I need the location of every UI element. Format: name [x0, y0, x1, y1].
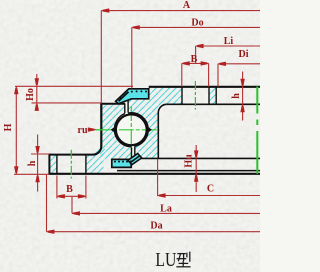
svg-text:H: H	[3, 123, 14, 131]
seal upper	[116, 89, 149, 104]
wire mounting hole left wall	[56, 155, 58, 174]
node raceway right vertex	[146, 126, 152, 134]
arrow Hu up	[194, 175, 198, 182]
svg-text:Do: Do	[191, 18, 203, 29]
node green centerline over ring edge	[96, 129, 105, 131]
wire bottom plane thick	[49, 173, 260, 175]
dim B top line	[182, 62, 209, 64]
arrow C left	[159, 193, 166, 197]
wire bolt hole left wall inner ring	[181, 87, 183, 105]
dim La extension	[71, 197, 73, 213]
node raceway right arc	[128, 113, 148, 147]
hatch flange right part	[86, 155, 104, 174]
wire flange top	[49, 154, 93, 156]
dim B top right extension	[208, 63, 210, 86]
dim h left line	[37, 135, 39, 192]
arrow B bottom left	[58, 194, 65, 198]
dim Do line	[132, 26, 260, 28]
arrow B top left	[183, 61, 190, 65]
svg-text:C: C	[207, 184, 214, 195]
arrow H up	[14, 88, 18, 95]
wire flange left edge	[48, 154, 50, 175]
svg-text:Ho: Ho	[25, 88, 36, 101]
seal upper tail inner edge	[119, 92, 129, 101]
arrow H down	[14, 166, 18, 173]
dim H bottom extension	[14, 173, 49, 175]
arrow ru right	[88, 127, 95, 131]
dim A extension	[100, 11, 102, 104]
wire inner ring top surface	[149, 86, 260, 88]
dim B bottom right extension	[85, 176, 87, 199]
hatch inner ring	[128, 87, 257, 159]
ball	[116, 114, 147, 145]
svg-text:LU: LU	[155, 249, 176, 271]
arrow h left up	[35, 176, 39, 183]
wire outer ring left edge	[100, 103, 102, 147]
arrows	[14, 8, 245, 234]
wire pocket corner	[158, 104, 167, 158]
arrow B top right	[201, 61, 208, 65]
dim Li line	[196, 45, 260, 47]
wire bore wall	[215, 87, 217, 105]
wire outer ring fillet	[93, 146, 101, 154]
dim B bottom line	[57, 195, 86, 197]
arrow Di left	[219, 62, 226, 66]
dim C extension	[157, 159, 159, 196]
wire gap above ball left	[124, 104, 126, 114]
svg-text:ru: ru	[78, 125, 88, 136]
svg-text:La: La	[160, 204, 172, 215]
wire gap below ball left	[131, 148, 133, 159]
dim h left top extension	[31, 153, 49, 155]
hatch outer ring body	[101, 104, 149, 159]
white void above ball between rings	[125, 103, 132, 113]
svg-text:B: B	[191, 54, 198, 65]
dim Di extension	[217, 64, 219, 87]
ball interior white	[114, 112, 149, 147]
dim H top extension	[15, 85, 133, 87]
arrow Hu down	[194, 150, 198, 157]
svg-text:Da: Da	[150, 221, 162, 232]
hatch fillet wedge	[93, 145, 102, 155]
dim Ho line	[36, 74, 38, 111]
svg-text:B: B	[66, 184, 73, 195]
wire gap below ball right	[134, 146, 136, 158]
wire mounting hole right wall	[85, 155, 87, 174]
node raceway left vertex	[111, 126, 117, 134]
arrow h right up	[240, 106, 244, 113]
arrow Ho up	[35, 104, 39, 111]
svg-text:Li: Li	[224, 36, 234, 47]
seal lower tail inner edge	[131, 156, 140, 162]
arrow La left	[73, 211, 80, 215]
dim Da line	[47, 231, 261, 233]
dim C line	[158, 195, 260, 197]
arrow A left	[103, 8, 110, 12]
title 型 glyph drawn manually	[176, 252, 190, 267]
svg-text:h: h	[27, 160, 38, 166]
node flange bolt centerline (green)	[70, 150, 72, 179]
node inner bolt centerline (green)	[194, 81, 196, 110]
svg-text:Di: Di	[239, 49, 249, 60]
dim B top left extension	[181, 63, 183, 86]
dim A line	[101, 10, 260, 12]
dim La line	[72, 212, 260, 214]
dim B bottom left extension	[56, 176, 58, 199]
wire bolt hole right wall inner ring	[208, 87, 210, 105]
dim Hu line	[195, 145, 197, 192]
seal lower	[112, 159, 131, 167]
wire inner ring band bottom	[167, 103, 260, 105]
svg-text:h: h	[231, 93, 242, 99]
arrow Ho down	[35, 78, 39, 85]
svg-text:A: A	[183, 0, 191, 11]
wire lower inner line	[117, 170, 260, 172]
node ball centerline horizontal (green)	[96, 129, 160, 131]
dim Do extension	[131, 27, 133, 88]
svg-text:Hu: Hu	[184, 154, 195, 168]
arrow B bottom right	[78, 194, 85, 198]
dim Di line	[218, 63, 260, 65]
dim Ho bottom extension	[32, 102, 102, 104]
arrow h left down	[35, 146, 39, 153]
leader ru line	[89, 129, 96, 131]
node bore centerline (green dashed)	[256, 87, 258, 114]
wire gap above ball right	[127, 99, 129, 113]
wire outer ring top surface	[101, 103, 125, 105]
dim H line	[15, 86, 17, 174]
seal lower tail	[128, 154, 142, 165]
node raceway left arc	[114, 114, 131, 147]
dim Da extension	[46, 175, 48, 232]
arrow Li left	[197, 44, 204, 48]
dim Li extension	[195, 46, 197, 63]
dim h right line	[242, 72, 244, 121]
hatch flange left sliver	[49, 155, 57, 174]
node ball centerline vertical (green)	[130, 106, 132, 157]
arrow h right down	[240, 79, 244, 86]
wire inner ring bottom	[135, 157, 260, 159]
arrow Do left	[133, 25, 140, 29]
arrow Da left	[48, 230, 55, 234]
